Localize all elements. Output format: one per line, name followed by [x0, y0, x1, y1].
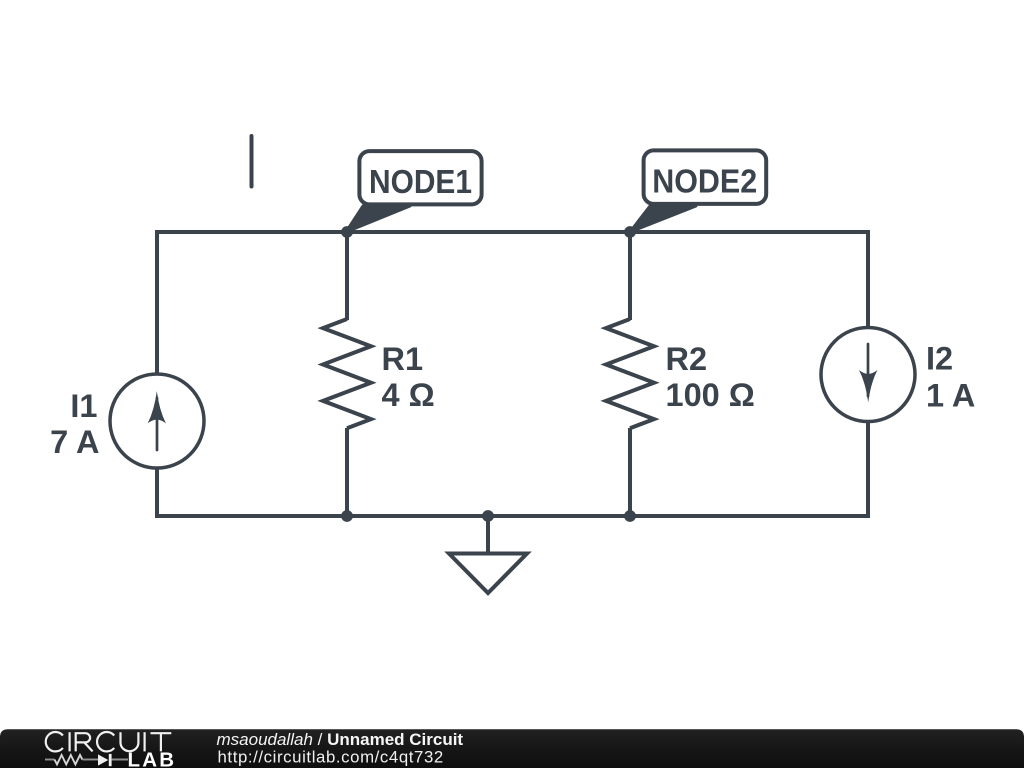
current source I2 circle [821, 328, 915, 422]
ground stub wire [486, 514, 490, 554]
node NODE1 callout tail [346, 206, 410, 232]
junction dot bottom ground [482, 510, 494, 522]
footer logo diode [98, 754, 108, 765]
svg-text:1 A: 1 A [926, 378, 975, 414]
wire R1 top lead [345, 232, 349, 320]
wire lower loop: left vertical, bottom wire, right vertical [157, 420, 868, 516]
svg-text:msaoudallah / Unnamed Circuit: msaoudallah / Unnamed Circuit [217, 730, 464, 749]
current source I2 arrow (down) [867, 344, 870, 396]
svg-text:I1: I1 [70, 388, 97, 424]
wire R1 bottom lead [345, 428, 349, 516]
node NODE2 callout box [644, 150, 767, 204]
junction dot bottom right [624, 510, 636, 522]
node NODE1 callout box [359, 151, 481, 204]
current source I1 circle [110, 374, 204, 468]
svg-text:R1: R1 [382, 341, 424, 377]
svg-text:NODE1: NODE1 [369, 163, 472, 200]
footer logo resistor lead [45, 759, 55, 761]
svg-text:100 Ω: 100 Ω [666, 377, 755, 413]
wire R2 bottom lead [628, 428, 632, 516]
wire stub (unconnected) top-left [250, 136, 254, 187]
wire upper loop: left vertical, top wire, right vertical [157, 232, 868, 375]
resistor R2 zigzag [606, 319, 654, 428]
node NODE2 callout tail [630, 206, 696, 232]
svg-text:http://circuitlab.com/c4qt732: http://circuitlab.com/c4qt732 [218, 748, 444, 767]
junction dot node NODE2 [624, 226, 636, 238]
svg-text:NODE2: NODE2 [652, 162, 757, 199]
current source I1 arrow (up) [156, 398, 159, 450]
footer bar [0, 729, 1024, 768]
wire R2 top lead [628, 232, 632, 320]
footer logo CIRCUIT lettering [46, 732, 172, 751]
svg-text:7 A: 7 A [50, 424, 99, 460]
junction dot node NODE1 [341, 226, 353, 238]
svg-text:R2: R2 [666, 341, 708, 377]
svg-text:4 Ω: 4 Ω [382, 377, 435, 413]
svg-text:LAB: LAB [128, 749, 177, 768]
svg-text:I2: I2 [926, 341, 953, 377]
ground symbol [449, 554, 527, 594]
junction dot bottom left [341, 510, 353, 522]
resistor R1 zigzag [323, 319, 371, 428]
